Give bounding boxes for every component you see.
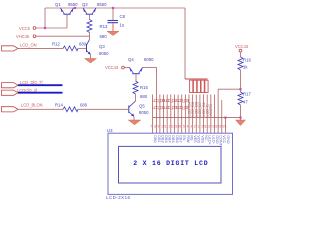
svg-text:8550: 8550 bbox=[97, 2, 107, 7]
svg-text:C8: C8 bbox=[120, 14, 126, 19]
rotated net labels bbox=[187, 102, 213, 117]
svg-text:LED+: LED+ bbox=[208, 135, 212, 145]
wire loop right side bbox=[184, 8, 186, 79]
svg-text:U3: U3 bbox=[107, 128, 113, 133]
wire R17 bottom bbox=[240, 105, 242, 120]
lcd module U3 box bbox=[107, 128, 233, 195]
pin names bbox=[153, 135, 230, 146]
transistor Q5 bbox=[129, 101, 149, 116]
wire R14 to Q5 base bbox=[78, 108, 129, 110]
svg-text:8050: 8050 bbox=[99, 51, 109, 56]
resistor network RP1 bbox=[185, 79, 208, 93]
svg-text:47: 47 bbox=[243, 100, 248, 105]
ground under Q5 bbox=[128, 120, 141, 125]
transistor Q2 bbox=[82, 2, 107, 14]
junction J2 bbox=[74, 7, 76, 9]
wire Q4 base down bbox=[135, 74, 137, 81]
port LCD_D bus bbox=[2, 80, 43, 88]
svg-text:680: 680 bbox=[80, 103, 88, 108]
resistor R13 bbox=[87, 20, 108, 40]
wire VCC43 to R16 bbox=[240, 52, 242, 57]
resistor R16 bbox=[238, 57, 251, 70]
port LCD_BLON bbox=[2, 102, 43, 112]
svg-text:DB0: DB0 bbox=[153, 135, 157, 142]
bus LCD_D bbox=[18, 84, 63, 86]
svg-text:LCD_ON: LCD_ON bbox=[20, 43, 37, 48]
svg-text:R13: R13 bbox=[100, 24, 108, 29]
svg-text:1: 1 bbox=[198, 125, 200, 129]
transistor Q4 bbox=[128, 57, 154, 74]
svg-text:VCC5: VCC5 bbox=[19, 26, 31, 31]
wire gnd rail bbox=[153, 117, 241, 119]
svg-text:Q5: Q5 bbox=[139, 104, 145, 109]
node VCC5 bbox=[19, 26, 36, 31]
svg-text:Q1: Q1 bbox=[55, 2, 61, 7]
svg-text:3: 3 bbox=[190, 125, 192, 129]
lcd display inner box bbox=[119, 146, 222, 183]
junction J4 bbox=[239, 88, 241, 90]
wire top rail bbox=[45, 7, 185, 9]
port LCDC bus bbox=[2, 88, 38, 95]
svg-text:Q3: Q3 bbox=[99, 44, 105, 49]
node VCC43 left bbox=[105, 65, 124, 70]
svg-text:6: 6 bbox=[179, 125, 181, 129]
junction J6 bbox=[224, 117, 226, 119]
node VCC43 right bbox=[235, 44, 249, 52]
capacitor C8 bbox=[108, 14, 126, 28]
wire LCD_BLON to R14 bbox=[18, 108, 63, 110]
wire Q1 base down bbox=[66, 15, 68, 28]
svg-text:R12: R12 bbox=[52, 42, 60, 47]
svg-text:R15: R15 bbox=[140, 85, 148, 90]
junction J5 bbox=[239, 117, 241, 119]
svg-text:DB2: DB2 bbox=[160, 135, 164, 142]
svg-text:LCD_BLON: LCD_BLON bbox=[21, 102, 43, 107]
svg-text:LCD_D0 LCD_D2 LCD_D4: LCD_D0 LCD_D2 LCD_D4 bbox=[152, 98, 190, 103]
wire R13 to Q3 collector bbox=[89, 33, 91, 40]
svg-text:VCC43: VCC43 bbox=[209, 104, 213, 116]
port LCD_ON bbox=[2, 43, 37, 51]
svg-text:1u: 1u bbox=[120, 23, 125, 28]
svg-text:VCC43: VCC43 bbox=[235, 44, 249, 49]
svg-text:2 X 16 DIGIT LCD: 2 X 16 DIGIT LCD bbox=[133, 160, 208, 167]
svg-text:VHC45: VHC45 bbox=[16, 34, 30, 39]
svg-text:VDD: VDD bbox=[197, 135, 201, 143]
svg-text:NC: NC bbox=[204, 135, 208, 141]
ground under Q3 bbox=[85, 59, 97, 64]
svg-text:EN: EN bbox=[182, 135, 186, 141]
svg-text:DB5: DB5 bbox=[171, 135, 175, 142]
svg-text:21: 21 bbox=[223, 125, 227, 129]
svg-text:Q4: Q4 bbox=[128, 57, 134, 62]
svg-text:GND: GND bbox=[226, 135, 230, 144]
svg-text:R14: R14 bbox=[55, 103, 63, 108]
wire C8 stem bbox=[112, 8, 114, 20]
svg-text:VEE: VEE bbox=[193, 135, 197, 143]
svg-text:680: 680 bbox=[100, 34, 108, 39]
svg-text:VSS: VSS bbox=[200, 135, 204, 143]
svg-text:R16: R16 bbox=[243, 58, 251, 63]
wire Q3 emitter bbox=[90, 55, 92, 59]
ground under C8 bbox=[107, 23, 119, 35]
svg-text:DB3: DB3 bbox=[164, 135, 168, 142]
wire LCD_ON to R12 bbox=[18, 47, 63, 49]
wire Q4 collector right bbox=[143, 67, 157, 69]
svg-text:RS: RS bbox=[189, 135, 193, 141]
wire Q2 base to R13 bbox=[89, 15, 91, 20]
junction J1 bbox=[44, 27, 46, 29]
svg-text:R/W: R/W bbox=[186, 135, 190, 143]
wire VO horizontal bbox=[218, 88, 240, 90]
svg-text:4: 4 bbox=[187, 125, 189, 129]
svg-text:8050: 8050 bbox=[144, 57, 154, 62]
wire Q5 emitter bbox=[133, 116, 135, 120]
svg-text:680: 680 bbox=[140, 94, 148, 99]
svg-text:DB6: DB6 bbox=[175, 135, 179, 142]
svg-text:8550: 8550 bbox=[68, 2, 78, 7]
svg-text:LED-: LED- bbox=[211, 135, 215, 144]
bus LCDC bbox=[18, 92, 63, 94]
svg-text:LCD-2X16: LCD-2X16 bbox=[106, 195, 131, 200]
svg-text:VCC: VCC bbox=[222, 135, 226, 143]
svg-text:GND: GND bbox=[215, 135, 219, 144]
svg-text:2: 2 bbox=[194, 125, 196, 129]
svg-text:680: 680 bbox=[79, 42, 87, 47]
resistor R14 bbox=[55, 103, 88, 112]
wire R15 to Q5 bbox=[135, 94, 137, 101]
svg-text:DB7: DB7 bbox=[178, 135, 182, 142]
resistor R17 bbox=[238, 92, 251, 106]
ground under R17 bbox=[236, 120, 246, 126]
svg-text:CONT: CONT bbox=[219, 135, 223, 146]
svg-text:8: 8 bbox=[154, 125, 156, 129]
resistor R12 bbox=[52, 42, 87, 51]
wire R16 to R17 bbox=[240, 70, 242, 92]
wire VCC43 to Q4 bbox=[124, 67, 129, 69]
wire R12 to Q3 base bbox=[78, 47, 87, 49]
svg-text:7: 7 bbox=[150, 125, 152, 129]
wire VCC5 horizontal bbox=[36, 27, 67, 29]
wire VCC5 branch vertical bbox=[44, 8, 46, 28]
node VHC45 bbox=[16, 34, 36, 39]
svg-text:9: 9 bbox=[157, 125, 159, 129]
transistor Q1 bbox=[55, 2, 78, 14]
resistor R15 bbox=[133, 81, 148, 99]
lcd pin wires bbox=[153, 68, 226, 134]
svg-text:VCC43: VCC43 bbox=[105, 65, 119, 70]
junction J3 bbox=[112, 7, 114, 9]
svg-text:8050: 8050 bbox=[139, 110, 149, 115]
svg-text:LCD_D1 LCD_D3 LCD_D5: LCD_D1 LCD_D3 LCD_D5 bbox=[152, 105, 190, 110]
svg-text:DB4: DB4 bbox=[168, 135, 172, 142]
pin numbers bbox=[150, 125, 227, 129]
svg-text:5: 5 bbox=[183, 125, 185, 129]
svg-text:Q2: Q2 bbox=[82, 2, 88, 7]
net label band rows bbox=[152, 98, 190, 110]
wire VHC45 horizontal bbox=[36, 35, 90, 37]
transistor Q3 bbox=[87, 40, 110, 57]
svg-text:R17: R17 bbox=[243, 92, 251, 97]
